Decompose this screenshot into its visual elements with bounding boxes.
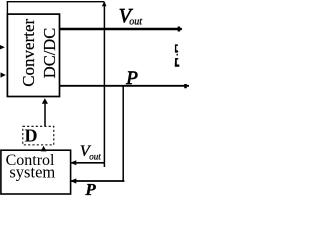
svg-text:DC/DC: DC/DC (40, 28, 59, 78)
arrowhead input into converter (lower) (1, 72, 6, 77)
control system box (1, 150, 71, 194)
arrowhead input into converter (upper) (0, 45, 5, 49)
wire: top horizontal line (7, 1, 105, 3)
svg-text:D: D (25, 126, 38, 146)
wire: D box to converter vertical (44, 104, 46, 127)
svg-text:system: system (9, 162, 55, 181)
wire: Vout feedback horizontal into control box (70, 162, 105, 164)
wire: P feedback vertical (122, 86, 124, 182)
wire: vertical line through Vout bus (up arrow to top wire, down to control) (103, 2, 105, 167)
svg-text:out: out (129, 16, 142, 27)
right-edge fragment upper (175, 44, 179, 55)
svg-text:Converter: Converter (19, 18, 38, 86)
arrowhead Vout into control box (70, 160, 76, 165)
right-edge fragment lower (175, 58, 180, 67)
arrowhead P into control box (70, 178, 76, 183)
D dashed box (23, 126, 54, 145)
arrowhead P bus right (184, 84, 188, 88)
wire: P feedback horizontal into control box (70, 180, 124, 182)
arrowhead control to D (41, 146, 47, 152)
arrowhead D to converter (42, 98, 48, 104)
svg-text:out: out (89, 151, 101, 161)
wire: stub from top wire down to converter box corner (6, 2, 8, 15)
converter DC/DC box (7, 14, 59, 96)
arrowhead up at top wire (102, 1, 107, 6)
svg-text:P: P (125, 68, 138, 89)
svg-text:P: P (84, 180, 96, 196)
arrowhead Vout bus right (178, 27, 183, 32)
wire: Vout bus (thick) (60, 28, 180, 31)
wire: P bus (60, 85, 190, 87)
